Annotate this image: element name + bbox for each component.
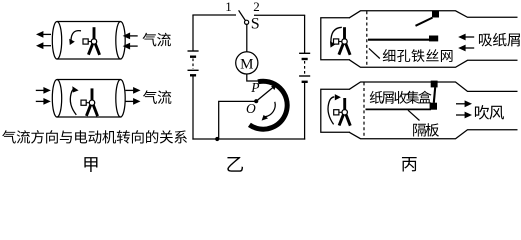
label qiliu top (143, 33, 171, 47)
rheostat wiper arrow (256, 84, 276, 101)
label blow wind (475, 105, 504, 120)
leader line partition label (408, 110, 420, 120)
wire top-right horizontal from contact 2 (254, 14, 305, 16)
label xi zhi xie (479, 33, 520, 47)
caption panel jia (2, 130, 187, 143)
paper scrap 2 motion line (368, 39, 430, 41)
suction arrow upper (458, 34, 474, 41)
battery left dashed link (192, 59, 194, 70)
wire O to bottom (219, 101, 256, 139)
wire left vertical bottom (192, 77, 194, 140)
wire top-left horizontal to contact 1 (192, 14, 236, 16)
flap scrap bottom square (430, 103, 437, 110)
paper scrap 2 square (429, 36, 438, 42)
battery left cell plates (188, 51, 199, 75)
wire right vertical top (304, 15, 306, 53)
airflow out arrow top-left lower (36, 42, 51, 49)
svg-text:O: O (246, 101, 256, 116)
fan motor bing-top (334, 27, 351, 55)
fan motor bing-bottom (334, 98, 351, 126)
blow arrow upper (456, 100, 472, 107)
rheostat wiper pivot O (254, 99, 258, 103)
cylinder body jia-top (52, 21, 125, 59)
svg-text:P: P (250, 80, 259, 95)
label mesh screen (383, 49, 453, 62)
mesh screen dashed line bottom duct (363, 82, 365, 138)
wire motor to rheostat (247, 74, 260, 81)
fan motor jia-top (83, 27, 100, 55)
airflow in arrow top-right lower (123, 43, 138, 50)
rheostat resistance arc track (249, 81, 287, 129)
airflow in arrow top-right upper (123, 33, 138, 40)
motor M circle (236, 52, 258, 74)
wire left vertical top (192, 15, 194, 51)
label collection box (370, 91, 432, 104)
fan motor jia-bottom (81, 88, 98, 116)
blow arrow lower (456, 112, 472, 119)
wire bottom horizontal (192, 138, 305, 140)
airflow out arrow top-left upper (36, 31, 51, 38)
svg-text:S: S (251, 15, 260, 32)
leader line mesh label (369, 48, 380, 58)
rotation arrow CCW bing-top fan (330, 27, 342, 47)
rotation arrow CCW jia-top (69, 31, 81, 45)
airflow out arrow bottom-right lower (126, 98, 141, 105)
rotation arrow CW jia-bottom (70, 86, 78, 115)
wire switch to motor (246, 24, 248, 51)
rotation arrow CW bing-bottom fan (328, 94, 341, 124)
flap scrap top square (431, 81, 438, 88)
airflow in arrow bottom-left upper (36, 87, 51, 94)
switch S pivot (245, 20, 249, 24)
svg-text:2: 2 (253, 0, 260, 14)
label yi (227, 157, 243, 172)
label bing (402, 157, 417, 171)
label partition (413, 123, 439, 136)
mesh screen dashed line top duct (366, 11, 368, 67)
rheostat rotation arrow (262, 102, 276, 121)
svg-text:1: 1 (225, 0, 232, 14)
paper scrap 1 motion line (416, 18, 433, 26)
label jia (84, 157, 97, 172)
duct outline bing-bottom (321, 82, 518, 139)
airflow in arrow bottom-left lower (36, 98, 51, 105)
paper scrap 1 square (432, 11, 439, 18)
cylinder body jia-bottom (52, 79, 125, 117)
junction dot (215, 137, 219, 141)
label qiliu bottom (143, 90, 171, 104)
suction arrow lower (458, 45, 474, 52)
flap scrap link line (434, 87, 435, 103)
battery right dashed link (304, 61, 306, 75)
partition plate line (366, 108, 432, 110)
wire right vertical bottom (304, 83, 306, 140)
airflow out arrow bottom-right upper (126, 87, 141, 94)
duct outline bing-top (321, 11, 518, 68)
switch S blade (239, 10, 246, 21)
battery right cell plates (299, 53, 310, 82)
svg-text:M: M (240, 56, 253, 72)
